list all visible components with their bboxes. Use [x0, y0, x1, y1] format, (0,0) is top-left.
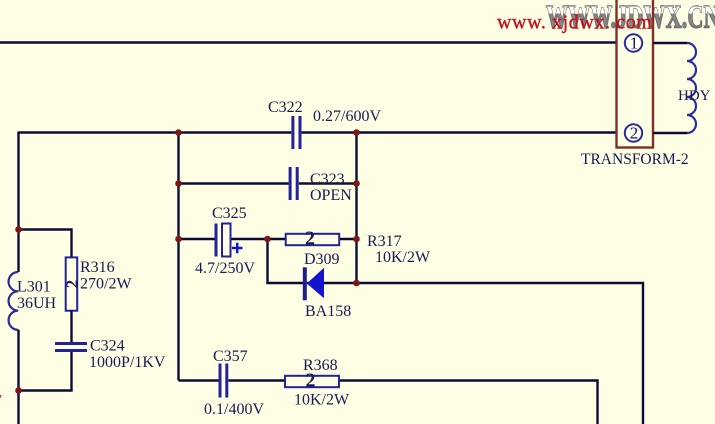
node C325 row / x178: [175, 236, 182, 243]
wire top rail to pin 1: [0, 41, 616, 43]
watermark WWW.JDWX.CN (gray): [546, 0, 715, 36]
svg-text:BA158: BA158: [305, 303, 351, 320]
svg-text:D309: D309: [304, 251, 340, 268]
svg-text:www. xjdwx. com: www. xjdwx. com: [497, 11, 652, 33]
svg-text:1000P/1KV: 1000P/1KV: [89, 354, 166, 371]
svg-text:TRANSFORM-2: TRANSFORM-2: [581, 151, 689, 168]
wire C323 row left: [179, 182, 289, 184]
capacitor C324: [55, 344, 87, 351]
transformer winding HDY: [653, 43, 696, 133]
transformer T box: [617, 0, 654, 148]
svg-text:C325: C325: [212, 205, 247, 222]
svg-text:1: 1: [630, 34, 639, 53]
svg-text:R316: R316: [80, 259, 115, 276]
svg-text:R317: R317: [367, 233, 402, 250]
svg-text:4.7/250V: 4.7/250V: [195, 260, 255, 277]
svg-text:2: 2: [63, 280, 82, 289]
svg-text:C357: C357: [213, 348, 248, 365]
wire R316 to C324: [70, 311, 72, 343]
node C325 row / x356: [353, 236, 360, 243]
resistor R317: [286, 234, 340, 245]
capacitor C325: [216, 224, 243, 257]
svg-text:C322: C322: [268, 99, 303, 116]
node C323 row / x178: [175, 180, 182, 187]
wire R316 branch top: [19, 230, 72, 258]
svg-text:10K/2W: 10K/2W: [294, 392, 350, 409]
transformer pin 2: [625, 124, 642, 141]
node diode row / x356: [353, 280, 360, 287]
svg-text:OPEN: OPEN: [310, 187, 352, 204]
wire x178 vertical: [177, 133, 179, 381]
node left vertical / C324 bottom: [15, 387, 22, 394]
svg-text:0.27/600V: 0.27/600V: [313, 108, 381, 125]
wire x356 vertical: [355, 132, 357, 284]
svg-text:HDY: HDY: [678, 88, 711, 104]
wire pin-2 rail (left part, to C322): [19, 131, 292, 133]
svg-text:w: w: [0, 390, 2, 406]
node left vertical / R316 branch: [15, 226, 22, 233]
diode D309: [303, 267, 324, 300]
node pin2-rail / x356: [353, 129, 360, 136]
wire C323 row right: [299, 182, 357, 184]
wire R368 row right: [229, 381, 598, 424]
resistor R368: [285, 376, 339, 387]
svg-text:2: 2: [630, 124, 639, 143]
svg-text:R368: R368: [303, 357, 338, 374]
svg-text:270/2W: 270/2W: [80, 276, 132, 293]
capacitor C357: [220, 364, 227, 398]
resistor R316: [66, 257, 78, 310]
wire C325 row left: [179, 238, 215, 240]
node pin2-rail / x178: [175, 129, 182, 136]
wire C324 bottom: [19, 352, 72, 391]
node C323 row / x356: [353, 180, 360, 187]
wire pin-2 rail (C322 to transformer): [302, 131, 616, 133]
svg-text:2: 2: [305, 228, 315, 250]
wire diode row: [268, 239, 644, 424]
svg-text:10K/2W: 10K/2W: [375, 249, 431, 266]
svg-text:C323: C323: [310, 171, 345, 188]
capacitor C322: [293, 116, 300, 149]
transformer pin 1: [625, 34, 642, 51]
wire R368 row left: [179, 379, 219, 381]
wire C325 row right: [231, 238, 357, 240]
svg-text:0.1/400V: 0.1/400V: [204, 401, 264, 418]
node C325 row / diode branch: [264, 236, 271, 243]
svg-text:36UH: 36UH: [17, 295, 57, 312]
inductor L301: [9, 272, 19, 330]
svg-text:C324: C324: [90, 338, 125, 355]
wire left vertical lower: [17, 330, 19, 424]
svg-text:L301: L301: [17, 279, 51, 296]
wire left vertical upper: [17, 132, 19, 273]
capacitor C323: [290, 167, 297, 200]
